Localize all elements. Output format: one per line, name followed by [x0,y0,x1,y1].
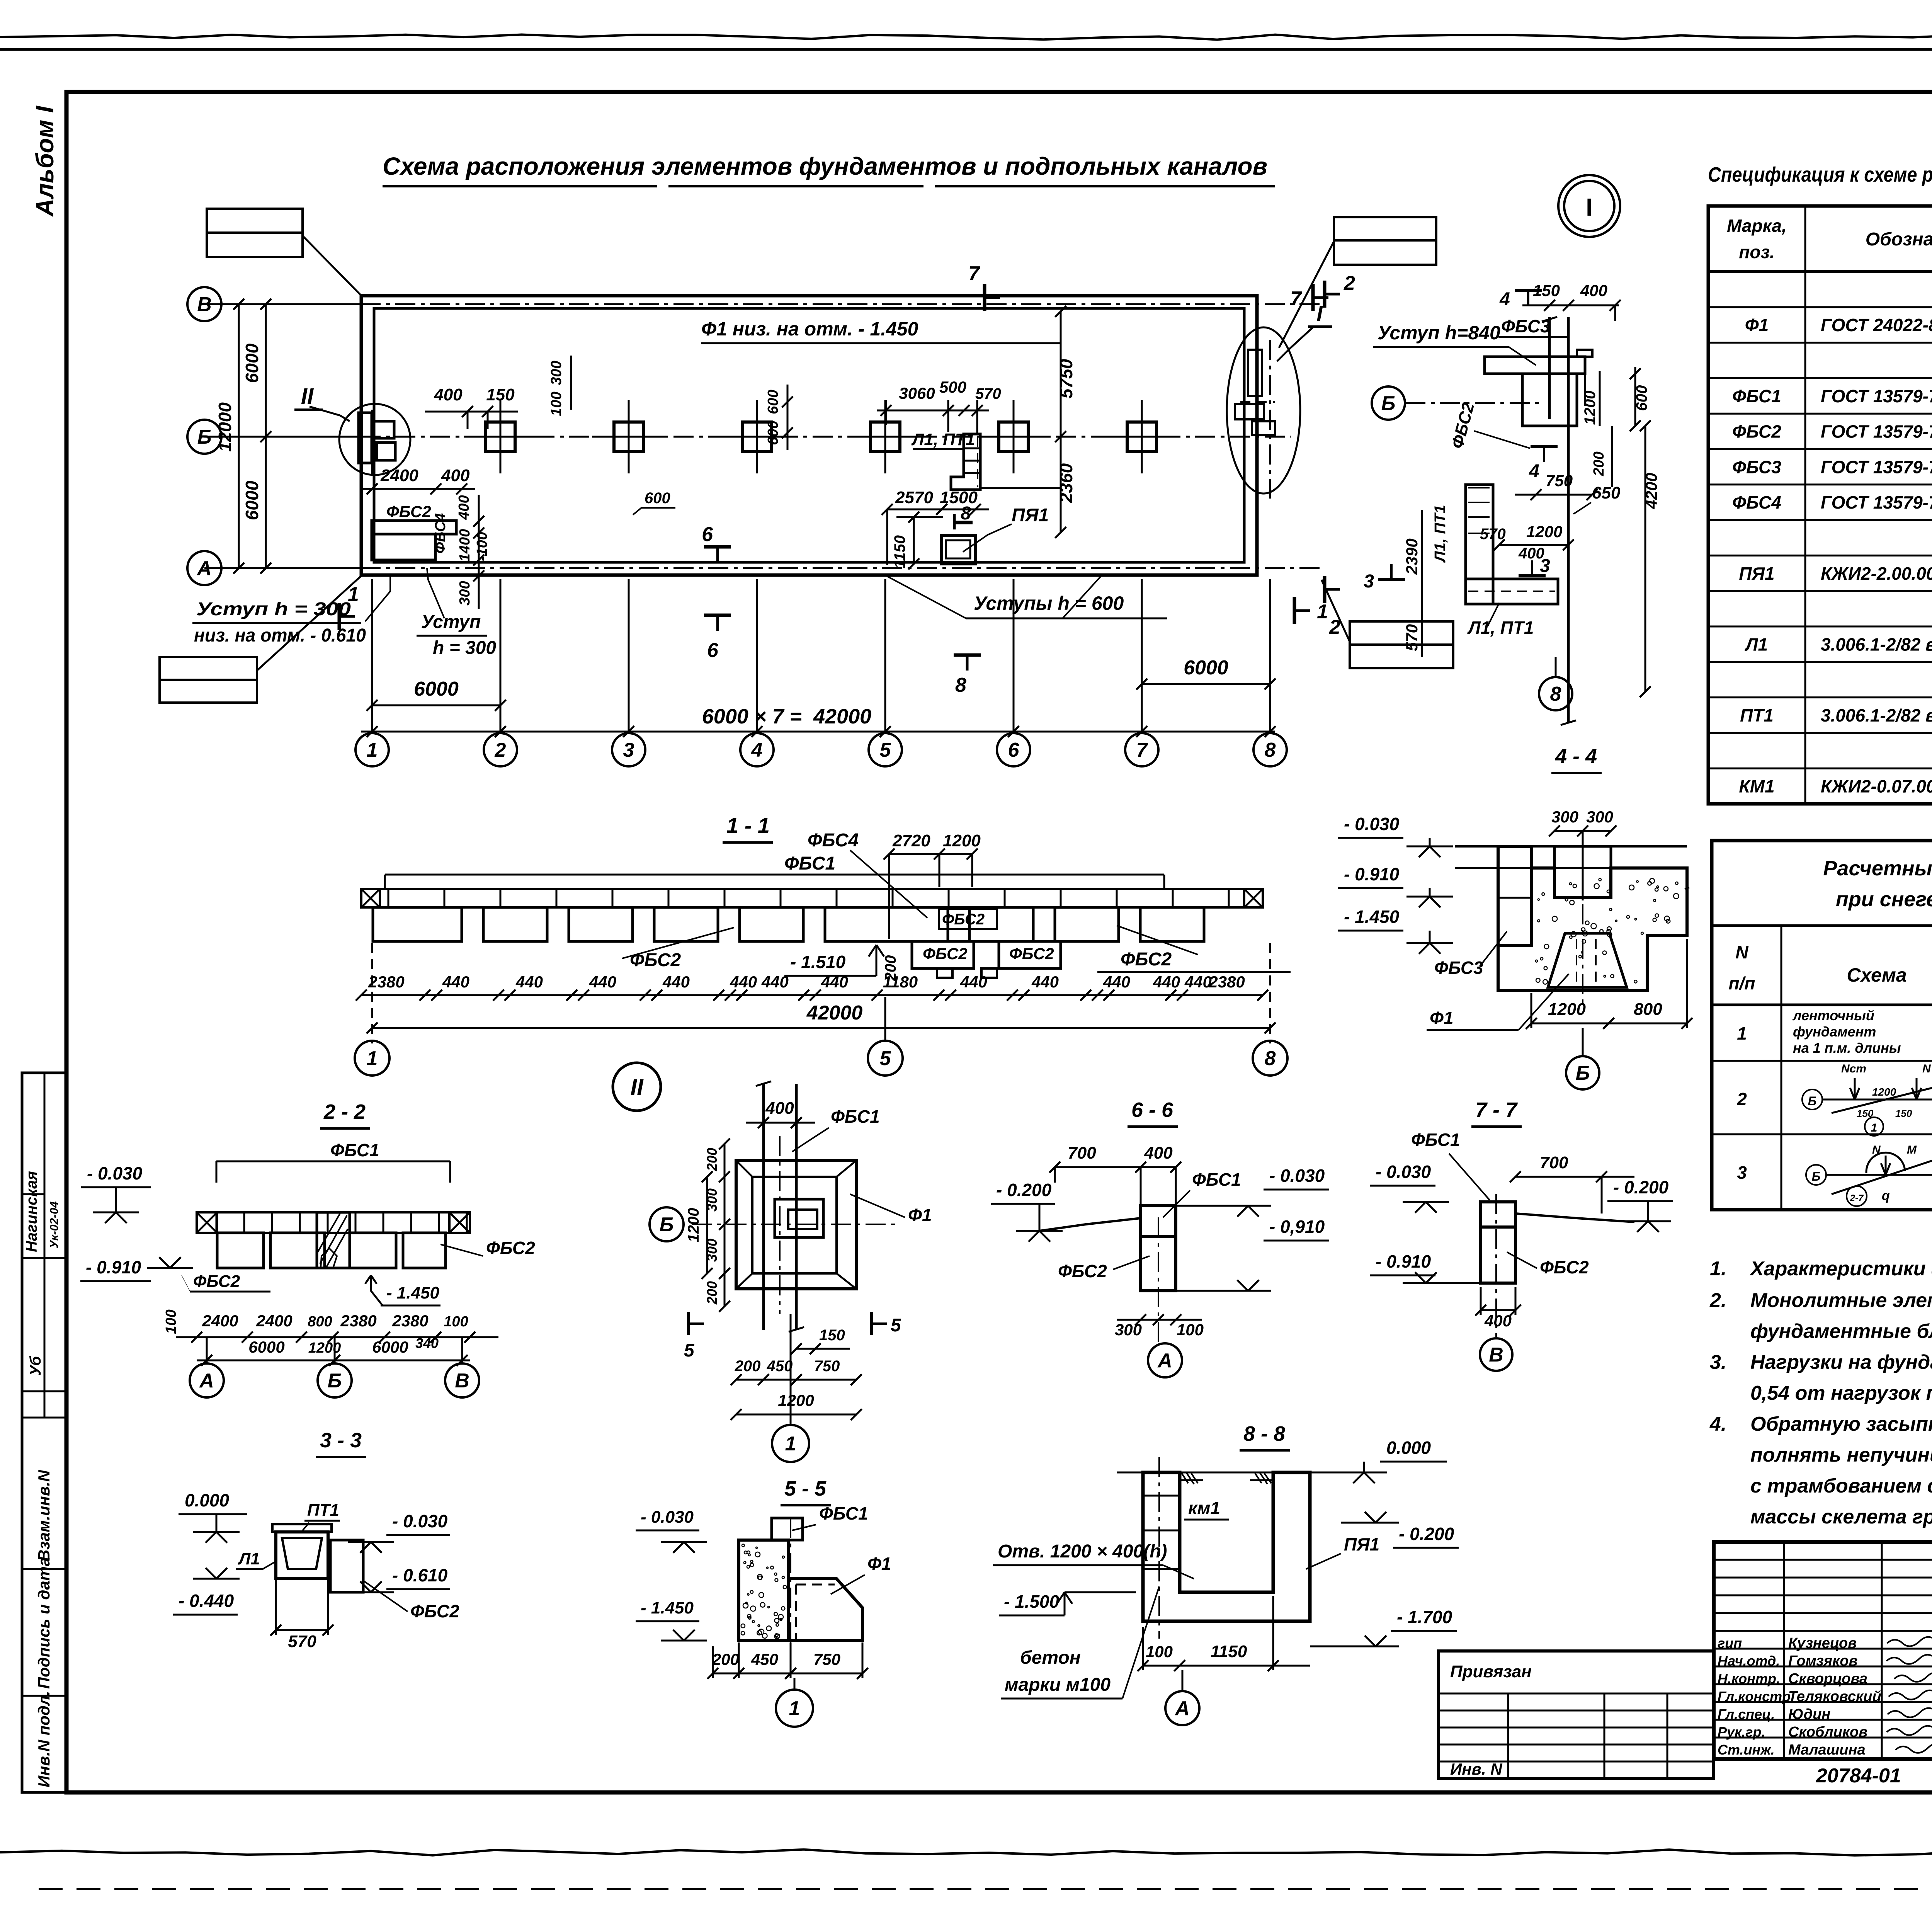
section 7-7 axis circle В [1480,1338,1512,1371]
left dim line 6000-6000 [265,304,267,568]
detail II bottom dims 200 450 750 [736,1379,856,1381]
svg-text:4: 4 [1499,289,1510,310]
svg-text:ФБС2: ФБС2 [386,502,431,521]
svg-text:ФБС4: ФБС4 [808,830,859,851]
section 1-1 dim 2720 1200 [889,853,972,855]
svg-text:Б: Б [1812,1169,1821,1183]
section 1-1 block course ФБС2 [373,907,462,941]
detail II marker circle [613,1063,661,1111]
svg-text:3.006.1-2/82 вып.0: 3.006.1-2/82 вып.0 [1821,705,1932,725]
svg-text:- 0.030: - 0.030 [1376,1162,1431,1182]
section flag 6 lower [704,614,731,617]
svg-text:400: 400 [1144,1144,1173,1162]
leader box top-left [207,209,303,233]
torn paper bottom edge [0,1849,1932,1855]
dim 6000 axes 1-2 [372,705,500,706]
svg-text:8 - 8: 8 - 8 [1243,1422,1285,1445]
svg-text:2: 2 [1344,272,1355,294]
svg-text:200: 200 [735,1358,761,1375]
detail II foundation inner square [775,1199,823,1237]
svg-text:Л1, ПТ1: Л1, ПТ1 [1432,505,1449,563]
detail I ledge blocks [1485,356,1585,358]
detail II label leader [310,407,340,415]
svg-text:с трамбованием слоями 200 -: с трамбованием слоями 200 - 300 мм до по… [1750,1475,1932,1497]
svg-text:Б: Б [1381,392,1396,415]
svg-text:440: 440 [442,973,469,991]
svg-text:8: 8 [1265,1047,1276,1070]
svg-text:0.000: 0.000 [185,1490,230,1510]
svg-text:2: 2 [1736,1089,1747,1109]
svg-text:1150: 1150 [1211,1642,1247,1661]
svg-text:42000: 42000 [806,1002,863,1024]
svg-text:- 0.440: - 0.440 [179,1591,234,1611]
svg-text:Ф1: Ф1 [1745,315,1769,335]
svg-text:5: 5 [684,1340,695,1361]
svg-text:450: 450 [751,1650,778,1668]
svg-text:- 0,910: - 0,910 [1269,1217,1325,1237]
svg-text:А: А [199,1370,214,1392]
svg-text:Скворцова: Скворцова [1788,1671,1867,1687]
svg-text:Теляковский: Теляковский [1788,1688,1881,1705]
section 5-5 concrete block [739,1540,788,1641]
svg-text:ГОСТ 13579-78: ГОСТ 13579-78 [1821,457,1932,477]
svg-text:фундамент: фундамент [1793,1024,1876,1040]
svg-text:Спецификация к схеме располо: Спецификация к схеме расположения элемен… [1708,163,1932,186]
detail 4-4 top slab lines [1455,845,1554,848]
detail I oval on axis 8 [1227,327,1300,494]
svg-text:Взам.инв.N: Взам.инв.N [35,1469,53,1561]
section 6-6 dims 700 400 [1055,1166,1176,1168]
section 3-3 lotok [272,1524,332,1532]
detail II foundation middle square [752,1177,837,1273]
svg-text:- 0.910: - 0.910 [1376,1251,1431,1271]
svg-text:Кузнецов: Кузнецов [1788,1635,1857,1651]
section 7-7 dim 700 [1515,1176,1634,1178]
svg-text:Уступ: Уступ [421,612,481,632]
svg-text:300: 300 [1115,1321,1142,1339]
section 6-6 blocks [1141,1206,1176,1237]
specification table frame [1708,206,1932,804]
svg-text:ФБС1: ФБС1 [1732,386,1781,406]
svg-text:700: 700 [1540,1153,1568,1172]
svg-text:- 1.500: - 1.500 [1004,1591,1060,1612]
svg-text:2: 2 [495,739,506,761]
dim 2400 400 bottom-left [361,488,475,490]
top border line [0,48,1932,51]
section 2-2 block row [217,1233,264,1268]
svg-text:ФБС2: ФБС2 [193,1272,240,1291]
specification table row lines [1708,306,1932,308]
section 5-5 Ф1 trapezoid [788,1579,862,1641]
detail I dim 2390 [1421,510,1423,603]
svg-text:1200: 1200 [1548,1000,1586,1019]
svg-text:- 1.450: - 1.450 [1344,907,1400,927]
svg-text:Нагрузки на фундаменты по ося: Нагрузки на фундаменты по осям 1Б и 8Б п… [1750,1351,1932,1373]
svg-text:5 - 5: 5 - 5 [784,1477,827,1500]
detail II section flags 5-5 [687,1312,690,1335]
svg-text:2720: 2720 [892,831,930,850]
detail 4-4 left column ФБС3 [1498,846,1531,945]
svg-text:Инв.N подл.: Инв.N подл. [35,1691,53,1787]
svg-text:2570: 2570 [895,488,933,507]
detail II axis circle 1 [772,1425,809,1462]
svg-text:Nст: Nст [1841,1062,1866,1075]
section flag 2 lower [1323,576,1327,603]
section 2-2 dims row1 [176,1336,498,1338]
svg-text:Б: Б [328,1370,342,1392]
svg-text:поз.: поз. [1739,242,1774,262]
svg-text:1200: 1200 [685,1208,702,1242]
axis circles 1-8 [355,733,389,766]
loads row 2 schematic [1802,1089,1822,1110]
section 8-8 tank walls [1143,1472,1310,1621]
section 7-7 dim 400 [1481,1309,1515,1311]
title block signature rows [1714,1559,1932,1561]
svg-text:0.000: 0.000 [1386,1438,1431,1458]
svg-text:300: 300 [457,581,473,605]
svg-text:400: 400 [434,385,463,404]
detail I wall vertical lines [1548,317,1551,419]
section 8-8 inner top lines [1180,1479,1203,1481]
detail II wall strip vertical [762,1084,765,1330]
detail I dim 570 lower [1421,603,1423,657]
axis row circle В [187,287,221,321]
svg-text:6000: 6000 [242,343,262,383]
section 1-1 axis circles [355,1041,389,1076]
svg-text:Л1, ПТ1: Л1, ПТ1 [911,430,975,449]
svg-text:6000: 6000 [242,480,262,520]
detail I dim 1200 [1599,371,1601,426]
svg-text:ФБС3: ФБС3 [1732,457,1781,477]
svg-text:8: 8 [1265,739,1276,761]
svg-text:440: 440 [662,973,690,991]
leader box bottom-left [160,657,257,680]
plan outer wall [361,296,1257,575]
detail II side dims [724,1144,726,1306]
svg-text:3: 3 [1540,556,1550,576]
svg-text:- 0.910: - 0.910 [1344,864,1400,884]
section 2-2 axis circles [190,1363,224,1397]
svg-text:ФБС1: ФБС1 [1192,1169,1241,1190]
section 2-2 dims row2 [197,1360,470,1362]
svg-text:Ф1 низ. на отм. - 1.450: Ф1 низ. на отм. - 1.450 [701,318,918,340]
svg-text:300: 300 [1586,808,1613,826]
svg-text:ПЯ1: ПЯ1 [1739,563,1774,584]
detail 4-4 dims 1200 800 [1531,1023,1687,1025]
svg-text:N: N [1922,1062,1931,1075]
detail 4-4 Ф1 trapezoid [1548,933,1627,987]
svg-text:Л1, ПТ1: Л1, ПТ1 [1467,618,1534,638]
svg-text:В: В [455,1370,469,1392]
svg-text:7 - 7: 7 - 7 [1475,1098,1518,1122]
svg-text:5: 5 [891,1315,901,1336]
detail I section flag 4 bottom [1531,445,1558,448]
section flag 8 upper [953,514,956,529]
svg-text:Ф1: Ф1 [867,1554,891,1574]
svg-text:N: N [1872,1144,1881,1156]
overall dim 6000x7=42000 [361,731,1275,733]
svg-text:ФБС2: ФБС2 [630,950,681,970]
svg-text:20784-01: 20784-01 [1816,1765,1901,1787]
svg-text:полнять непучинистым грунтом: полнять непучинистым грунтом оптимальной… [1750,1444,1932,1466]
svg-text:1: 1 [1317,601,1328,623]
svg-text:450: 450 [767,1358,793,1375]
section 2-2 centre pier hatched [317,1212,350,1268]
svg-text:ГОСТ 13579-78: ГОСТ 13579-78 [1821,492,1932,512]
svg-text:2-7: 2-7 [1850,1193,1864,1203]
svg-text:КЖИ2-0.07.00: КЖИ2-0.07.00 [1821,776,1932,797]
svg-text:2380: 2380 [340,1312,376,1330]
detail II axis cross [692,1224,900,1225]
svg-text:п/п: п/п [1729,973,1755,993]
section flag 7 left [983,284,986,311]
detail II dim 400 top [746,1122,815,1124]
svg-text:гип: гип [1718,1635,1742,1651]
svg-text:440: 440 [1103,973,1130,991]
svg-text:Монолитные элементы набетоно: Монолитные элементы набетонок из бетона … [1750,1289,1932,1312]
svg-text:- 0.200: - 0.200 [1613,1177,1669,1197]
binding table frame [1439,1651,1714,1779]
title block frame [1714,1542,1932,1759]
specification table header row line [1708,270,1932,273]
svg-text:1200: 1200 [308,1340,341,1356]
svg-text:Расчетные нагрузки на верхни: Расчетные нагрузки на верхний обрез фунд… [1823,857,1932,880]
svg-text:3.: 3. [1710,1351,1726,1373]
svg-text:1200: 1200 [1872,1086,1896,1098]
svg-text:ГОСТ 13579-78: ГОСТ 13579-78 [1821,422,1932,442]
section 3-3 block ФБС2 [330,1540,363,1592]
svg-text:340: 340 [415,1335,439,1351]
svg-text:Ук-02-04: Ук-02-04 [48,1201,61,1248]
section 8-8 top cover line [1117,1472,1341,1474]
svg-text:Ф1: Ф1 [1430,1008,1454,1028]
section 8-8 hatch top left [1182,1472,1198,1484]
section 1-1 overall 42000 [372,1027,1270,1029]
svg-text:440 440: 440 440 [1153,973,1212,991]
bottom dashed trim line [39,1888,1932,1890]
corner blocks bottom-left of plan [372,521,456,534]
svg-text:4 - 4: 4 - 4 [1555,745,1597,768]
section 8-8 dims 100 1150 [1143,1665,1310,1667]
svg-text:440: 440 [515,973,543,991]
svg-text:ГОСТ 13579-78: ГОСТ 13579-78 [1821,386,1932,406]
stamp divider lines [22,1257,66,1259]
svg-text:1: 1 [1737,1023,1747,1043]
svg-text:750: 750 [814,1358,840,1375]
detail I wall right verticals [1584,357,1586,406]
detail I axis circle Б [1372,386,1405,420]
svg-text:ГОСТ 24022-80: ГОСТ 24022-80 [1821,315,1932,335]
svg-text:800: 800 [308,1314,332,1330]
svg-text:400: 400 [1484,1312,1512,1330]
svg-text:Обратную засыпку пазух , а: Обратную засыпку пазух , а также подсыпк… [1750,1413,1932,1435]
svg-text:ФБС1: ФБС1 [831,1106,880,1127]
svg-text:II: II [301,384,314,409]
section flag 1 right [1293,597,1296,624]
svg-text:8: 8 [1550,683,1561,705]
svg-text:ленточный: ленточный [1792,1008,1874,1023]
svg-text:- 1.700: - 1.700 [1397,1607,1452,1627]
section flag 8 lower [954,654,981,657]
svg-text:6: 6 [707,639,719,662]
svg-text:6000 × 7 =: 6000 × 7 = [702,705,802,728]
dim 3060 500 570 over channel [877,410,989,412]
detail I dim 750 [1515,494,1592,496]
svg-text:3: 3 [1737,1162,1747,1183]
section 2-2 slab band [197,1212,470,1233]
svg-text:1150: 1150 [891,535,908,568]
svg-text:Ф1: Ф1 [908,1205,932,1225]
svg-text:- 0.910: - 0.910 [86,1257,141,1277]
svg-text:570: 570 [288,1632,316,1651]
svg-text:2380: 2380 [368,973,404,991]
svg-text:300: 300 [1551,808,1578,826]
detail I dim 600 [1634,367,1636,426]
svg-text:150: 150 [819,1327,845,1344]
svg-text:400: 400 [456,495,472,520]
svg-text:8: 8 [955,674,966,696]
detail I axis circle 8 [1539,677,1572,710]
svg-text:ФБС2: ФБС2 [942,911,985,928]
svg-text:3: 3 [623,739,634,761]
svg-text:2380: 2380 [1208,973,1245,991]
dim 2570 1500 [887,509,989,511]
svg-text:- 1.450: - 1.450 [386,1283,440,1302]
svg-text:2.: 2. [1709,1289,1726,1312]
svg-text:1: 1 [367,1047,378,1070]
section 3-3 dim 570 [276,1629,328,1631]
section 1-1 bottom dims [361,994,1263,996]
svg-text:12000: 12000 [215,402,235,452]
svg-text:- 0.030: - 0.030 [1269,1166,1325,1186]
svg-text:при снеге 0,981 кПа (100кг/м: при снеге 0,981 кПа (100кг/м²) и коэффиц… [1836,888,1932,911]
svg-text:4200: 4200 [1642,473,1660,509]
detail 4-4 footing block [1498,868,1687,991]
svg-text:570: 570 [1480,526,1506,543]
svg-text:В: В [1489,1344,1503,1366]
svg-text:1200: 1200 [1582,391,1599,425]
svg-text:400: 400 [441,466,470,485]
svg-text:КМ1: КМ1 [1739,776,1774,797]
svg-text:ПТ1: ПТ1 [1740,705,1774,725]
svg-text:II: II [630,1074,644,1100]
svg-text:400: 400 [765,1099,794,1118]
svg-text:км1: км1 [1188,1498,1220,1518]
svg-text:фундаментные блоки — морозост: фундаментные блоки — морозостойкость Мрз… [1750,1320,1932,1343]
svg-text:ФБС1: ФБС1 [784,853,835,874]
svg-text:1: 1 [785,1433,796,1455]
binding table rows [1439,1693,1714,1695]
svg-text:Нагинская: Нагинская [23,1171,40,1252]
loads table frame [1712,841,1932,1210]
svg-text:Уб: Уб [27,1356,44,1376]
leader box top-right [1334,217,1436,240]
svg-text:2400: 2400 [202,1312,238,1330]
svg-text:440: 440 [1031,973,1059,991]
left stamp column box [22,1073,66,1792]
svg-text:ФБС3: ФБС3 [1501,316,1550,336]
detail 4-4 axis circle Б [1566,1056,1599,1089]
axis line Б [221,436,1291,438]
svg-text:ФБС1: ФБС1 [330,1140,379,1160]
svg-text:- 0.610: - 0.610 [392,1565,448,1585]
svg-text:1500: 1500 [940,488,978,507]
svg-text:Марка,: Марка, [1727,216,1787,236]
svg-text:2400: 2400 [380,466,418,485]
svg-text:Гомзяков: Гомзяков [1788,1653,1857,1669]
section 1-1 top slab line [361,888,1263,890]
svg-text:ФБС2: ФБС2 [486,1238,535,1258]
section 6-6 ground line [1039,1218,1141,1231]
svg-text:Юдин: Юдин [1788,1706,1830,1722]
svg-text:ФБС4: ФБС4 [1732,492,1781,512]
section flag 1 left [338,603,341,630]
svg-text:ФБС2: ФБС2 [410,1601,459,1621]
svg-text:2380: 2380 [392,1312,428,1330]
svg-text:- 0.030: - 0.030 [392,1511,448,1531]
section 1-1 brick course [361,889,1263,907]
section flag 7 right [1311,284,1315,311]
svg-text:8: 8 [961,503,971,524]
section 5-5 dims 200 450 750 [713,1673,862,1675]
svg-text:N: N [1735,942,1748,962]
loads table header lines [1712,924,1932,927]
detail I channel blocks [1466,485,1493,604]
detail I section flags 3 [1378,578,1405,581]
svg-text:2360: 2360 [1056,463,1076,503]
binding table columns [1507,1693,1509,1779]
svg-text:q: q [1882,1188,1890,1203]
svg-text:ПЯ1: ПЯ1 [1012,505,1049,526]
svg-text:Малашина: Малашина [1788,1742,1866,1758]
svg-text:600: 600 [765,420,781,445]
svg-text:Отв. 1200 × 400(h): Отв. 1200 × 400(h) [998,1541,1167,1562]
svg-text:570: 570 [1403,624,1421,651]
svg-text:3.006.1-2/82 вып.0: 3.006.1-2/82 вып.0 [1821,634,1932,654]
svg-text:Н.контр.: Н.контр. [1718,1671,1780,1687]
svg-text:1200: 1200 [1526,523,1562,541]
svg-text:300: 300 [548,361,565,385]
svg-text:200: 200 [704,1281,720,1305]
svg-text:1: 1 [1871,1122,1878,1134]
svg-text:Схема расположения элементов: Схема расположения элементов фундаментов… [383,152,1267,180]
dim 400 150 at axis 1 top [425,411,518,413]
svg-text:Ст.инж.: Ст.инж. [1718,1742,1775,1758]
svg-text:ФБС1: ФБС1 [1411,1130,1460,1150]
svg-text:600: 600 [765,390,781,414]
detail 4-4 dim 300 300 [1554,830,1611,832]
svg-text:6: 6 [1008,739,1020,761]
section 1-1 end cross right [1244,889,1263,907]
svg-text:1.: 1. [1710,1258,1726,1280]
section 2-2 end crosses [197,1212,217,1233]
svg-text:600: 600 [645,490,670,507]
svg-text:5: 5 [880,739,891,761]
svg-text:1180: 1180 [883,973,918,991]
svg-text:7: 7 [968,262,980,285]
svg-text:- 0.030: - 0.030 [87,1163,143,1183]
svg-text:Б: Б [1808,1094,1817,1108]
svg-text:Л1: Л1 [238,1549,260,1568]
torn paper top edge [0,35,1932,40]
channel leader to dim [980,487,1061,489]
svg-text:6000: 6000 [248,1338,284,1356]
svg-text:750: 750 [813,1650,840,1668]
detail I top dim 150 400 [1522,305,1619,306]
channel Л1 ПТ1 in plan [951,434,980,490]
svg-text:на 1 п.м. длины: на 1 п.м. длины [1793,1040,1901,1056]
svg-text:- 1.450: - 1.450 [641,1598,694,1617]
